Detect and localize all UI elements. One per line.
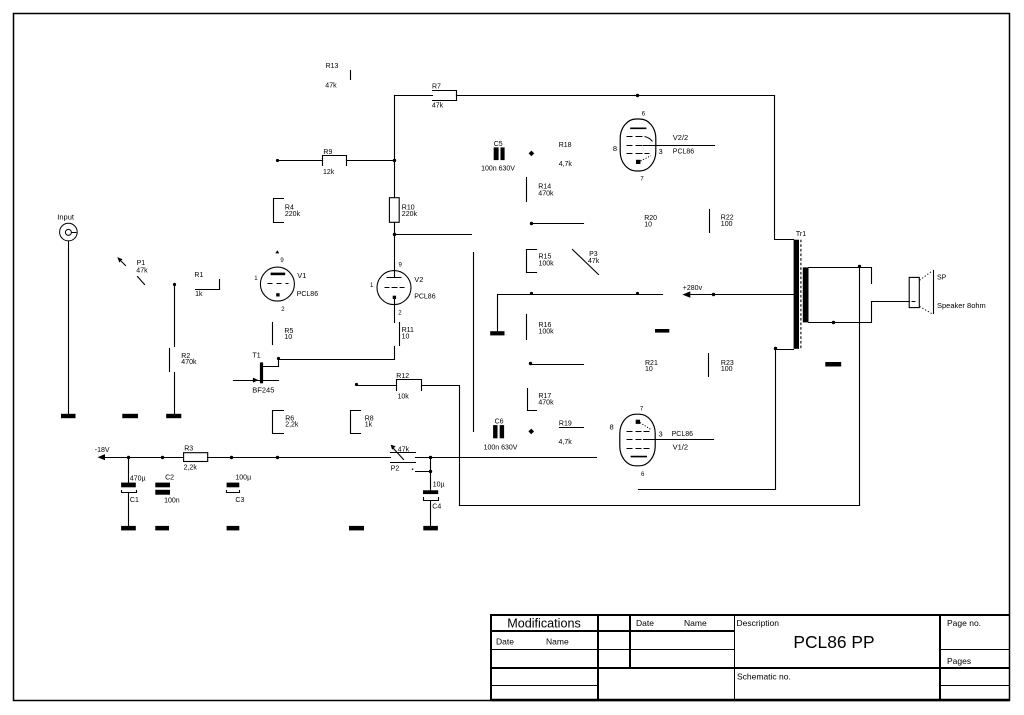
potentiometer P3 [573, 250, 600, 275]
title block Description label [737, 618, 780, 628]
svg-text:R18: R18 [559, 142, 572, 149]
svg-text:V2/2: V2/2 [673, 133, 688, 142]
resistor R17 bracket [528, 389, 555, 411]
svg-text:470k: 470k [538, 190, 554, 197]
title block col1 Date label [496, 637, 514, 647]
svg-text:47k: 47k [136, 267, 148, 274]
node dot secondary bottom [832, 321, 835, 324]
svg-text:R9: R9 [323, 149, 332, 156]
svg-text:47k: 47k [325, 83, 337, 90]
svg-text:2,2k: 2,2k [184, 464, 198, 471]
node dot left end of R9 wire [276, 159, 279, 162]
ground C3 [227, 526, 240, 531]
ground C1 [121, 526, 136, 531]
node dot C2 tap [161, 456, 164, 459]
resistor R14 [527, 178, 554, 202]
svg-text:4,7k: 4,7k [559, 439, 573, 446]
transformer Tr1 [794, 231, 809, 349]
transistor T1 BF245 [252, 353, 278, 395]
resistor R8 bracket [351, 411, 374, 434]
node dot on plate wire [636, 94, 639, 97]
svg-text:2,2k: 2,2k [285, 422, 299, 429]
resistor R6 bracket [273, 411, 299, 434]
svg-text:12k: 12k [323, 169, 335, 176]
wire input to ground [68, 242, 70, 415]
wire V1/2 grid pin3 [644, 439, 714, 441]
+280v supply arrow [682, 285, 793, 298]
svg-text:V2: V2 [414, 275, 423, 284]
title block col3 Date label [636, 618, 654, 628]
node dot screen bus left [530, 292, 533, 295]
svg-text:Modifications: Modifications [507, 617, 581, 631]
wire vertical R7 junction down to R10 [394, 96, 396, 198]
wire down right side to transformer primary top [775, 96, 794, 240]
resistor R1 [194, 272, 219, 298]
long vertical wire mid [473, 253, 475, 432]
svg-text:Pages: Pages [947, 656, 971, 666]
svg-text:10: 10 [402, 334, 410, 341]
ground floating middle-left [122, 414, 138, 418]
resistor R13 [325, 63, 350, 90]
node diamond near R19 [528, 429, 534, 435]
resistor R11 body [400, 323, 415, 346]
potentiometer P1 [117, 257, 148, 284]
capacitor C5 [481, 141, 515, 172]
svg-text:PCL86 PP: PCL86 PP [793, 632, 874, 652]
wire gate from left [234, 380, 261, 382]
wire R9 right to junction [347, 160, 395, 162]
capacitor C4 [423, 458, 445, 527]
svg-text:47k: 47k [398, 446, 410, 453]
wire R9 left [278, 160, 323, 162]
wire P2 bottom tap [416, 471, 431, 473]
capacitor C3 [227, 475, 252, 504]
svg-text:100n 630V: 100n 630V [481, 165, 515, 172]
node dot rail right [276, 456, 279, 459]
wire R12 right and down [422, 386, 460, 506]
node dot below R10 [393, 233, 396, 236]
svg-text:Input: Input [57, 213, 75, 222]
node dot transformer primary bottom [774, 347, 777, 350]
connector Input [57, 213, 77, 241]
ground under R2 [166, 414, 181, 418]
svg-text:8: 8 [610, 423, 614, 432]
svg-text:PCL86: PCL86 [414, 294, 436, 301]
node dot R9-R7 junction [393, 159, 396, 162]
wire R12 left [357, 385, 397, 387]
svg-text:Speaker 8ohm: Speaker 8ohm [937, 301, 986, 310]
node dot P2 tap [429, 470, 432, 473]
ground C2 [155, 526, 169, 531]
wire screen stub upper [532, 223, 584, 225]
node dot on supply wire [712, 293, 715, 296]
resistor R20 [644, 215, 657, 228]
svg-text:P1: P1 [137, 260, 146, 267]
svg-text:3: 3 [659, 429, 663, 438]
resistor R21 [645, 360, 658, 373]
wire R11 to drain bus [394, 347, 396, 360]
resistor R19 [559, 420, 584, 446]
svg-text:Tr1: Tr1 [796, 231, 806, 238]
svg-text:C6: C6 [495, 419, 504, 426]
resistor R23 [709, 354, 734, 377]
resistor R2 body [170, 349, 197, 372]
svg-text:R7: R7 [432, 84, 441, 91]
title block col1 Name label [546, 637, 569, 647]
node dot screen bus right [636, 292, 639, 295]
title block Page no. label [947, 618, 981, 628]
svg-text:V1/2: V1/2 [673, 443, 688, 452]
svg-text:100: 100 [721, 366, 733, 373]
resistor R12 [396, 373, 421, 401]
svg-text:100k: 100k [539, 328, 555, 335]
ground bar floating right [655, 329, 669, 333]
wire screen bus y294 [498, 294, 663, 296]
resistor R22 [710, 210, 734, 233]
svg-text:100µ: 100µ [235, 475, 251, 482]
svg-text:C3: C3 [235, 497, 244, 504]
wire junction to grid stub right [395, 234, 472, 236]
pentode V2/2 [613, 112, 694, 183]
node dot above R2 [173, 283, 176, 286]
wire V2/2 grid pin3 [644, 145, 715, 147]
title block label Modifications [507, 617, 581, 631]
resistor R15 bracket [527, 250, 555, 273]
svg-text:1k: 1k [195, 291, 203, 298]
resistor R9 [323, 149, 347, 176]
svg-text:Description: Description [737, 618, 780, 628]
resistor R18 [559, 142, 573, 168]
svg-text:Schematic no.: Schematic no. [737, 672, 791, 682]
svg-text:+280v: +280v [683, 285, 703, 292]
svg-text:100k: 100k [539, 260, 555, 267]
svg-text:Page no.: Page no. [947, 618, 981, 628]
triode V1 [254, 250, 318, 313]
node dot C3 tap [230, 456, 233, 459]
svg-text:10: 10 [645, 366, 653, 373]
svg-text:10µ: 10µ [433, 482, 445, 489]
resistor R5 body [273, 323, 294, 345]
svg-text:10: 10 [284, 334, 292, 341]
wire screen bus to ground [497, 295, 499, 332]
svg-text:100n: 100n [164, 498, 180, 505]
wire drain bus to V2 cathode [279, 359, 395, 361]
speaker SP [909, 271, 986, 314]
svg-text:220k: 220k [285, 211, 301, 218]
capacitor C6 [484, 419, 518, 452]
svg-text:10k: 10k [398, 394, 410, 401]
svg-text:1k: 1k [365, 422, 373, 429]
potentiometer P2 [391, 445, 416, 473]
resistor R16 [527, 315, 555, 340]
ground C4 [423, 526, 438, 531]
svg-text:R19: R19 [559, 420, 572, 427]
resistor R7 [432, 84, 457, 110]
svg-text:220k: 220k [402, 211, 418, 218]
capacitor C2 [155, 475, 179, 505]
wire secondary top [809, 268, 872, 284]
node dot C4 top [429, 456, 432, 459]
svg-text:PCL86: PCL86 [673, 148, 695, 155]
svg-text:8: 8 [613, 144, 617, 153]
node dot screen stub upper [530, 222, 533, 225]
svg-text:100: 100 [721, 221, 733, 228]
wire R7 left [395, 95, 433, 97]
svg-text:470k: 470k [181, 359, 197, 366]
wire primary bottom [776, 349, 794, 351]
ground screen bus [490, 331, 504, 335]
-18V supply arrow [95, 447, 184, 460]
svg-text:470µ: 470µ [130, 476, 146, 483]
title block outline [491, 614, 1009, 700]
svg-text:T1: T1 [253, 353, 261, 360]
title block Pages label [947, 656, 971, 666]
svg-text:R3: R3 [184, 445, 193, 452]
node diamond near C5 [529, 151, 535, 157]
title block PCL86 PP title [793, 632, 874, 652]
pentode V1/2 [610, 406, 694, 478]
wire V2 cathode down [394, 300, 396, 323]
wire P2 right rail [416, 457, 597, 459]
resistor R4 bracket [274, 199, 301, 223]
svg-text:PCL86: PCL86 [672, 431, 694, 438]
wire screen stub lower [531, 364, 584, 366]
svg-text:SP: SP [937, 275, 947, 282]
svg-text:-18V: -18V [95, 447, 110, 454]
ground floating mid bottom [349, 526, 364, 531]
feedback wire from secondary [460, 268, 860, 506]
wire below V1/2 to transformer [639, 350, 776, 490]
title block col3 Name label [684, 618, 707, 628]
wire R3 right to P2 [208, 457, 391, 459]
resistor R3 [184, 445, 208, 471]
wire R10 to V2 anode [394, 223, 396, 278]
svg-text:Date: Date [636, 618, 654, 628]
node dot C1 tap [127, 456, 130, 459]
node dot R12 left [355, 383, 358, 386]
svg-text:3: 3 [659, 147, 663, 156]
node dot screen stub lower [529, 362, 532, 365]
svg-text:Date: Date [496, 637, 514, 647]
ground input [61, 414, 76, 418]
svg-text:R1: R1 [194, 272, 203, 279]
triode V2 [370, 262, 436, 316]
ground bar floating below secondary [825, 362, 841, 367]
svg-text:Name: Name [546, 637, 569, 647]
wire secondary bottom to speaker [809, 302, 910, 323]
wire R2 to ground [174, 373, 176, 415]
svg-text:470k: 470k [538, 399, 554, 406]
svg-text:47k: 47k [588, 258, 600, 265]
svg-text:C5: C5 [494, 141, 503, 148]
node dot T1 drain [277, 357, 280, 360]
svg-text:C4: C4 [432, 504, 441, 511]
resistor R10 [389, 198, 417, 223]
svg-text:P2: P2 [391, 466, 400, 473]
title block Schematic no. label [737, 672, 791, 682]
svg-text:PCL86: PCL86 [297, 291, 319, 298]
svg-text:C1: C1 [130, 497, 139, 504]
svg-text:4,7k: 4,7k [559, 161, 573, 168]
svg-text:R13: R13 [326, 63, 339, 70]
capacitor C1 [121, 458, 146, 527]
wire R7 right to transformer drop [457, 95, 775, 97]
svg-text:R12: R12 [396, 373, 409, 380]
wire node to R2 [174, 285, 176, 347]
svg-text:10: 10 [644, 221, 652, 228]
svg-text:47k: 47k [432, 103, 444, 110]
svg-text:V1: V1 [297, 271, 306, 280]
svg-text:C2: C2 [165, 475, 174, 482]
svg-text:BF245: BF245 [252, 386, 274, 395]
svg-text:Name: Name [684, 618, 707, 628]
svg-text:P3: P3 [589, 251, 598, 258]
node dot secondary top [858, 265, 861, 268]
svg-text:100n 630V: 100n 630V [484, 444, 518, 451]
